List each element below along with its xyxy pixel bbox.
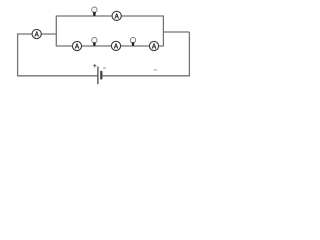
stray minus mark bbox=[154, 69, 157, 71]
battery B1 long plate (+) bbox=[97, 67, 99, 85]
lamp L2 (middle branch left) bbox=[92, 38, 97, 46]
wire left branch horizontal bbox=[18, 33, 57, 35]
wire left inner vertical bbox=[55, 16, 57, 47]
lamp L3 (middle branch right) bbox=[130, 37, 135, 45]
wire bottom left bbox=[17, 75, 97, 77]
wire left vertical bbox=[17, 33, 19, 75]
wire middle branch bbox=[56, 45, 163, 47]
ammeter A4 (middle branch center) bbox=[111, 41, 120, 50]
battery - label bbox=[103, 67, 105, 69]
wire right inner vertical bbox=[162, 16, 164, 47]
ammeter A2 (top branch) bbox=[112, 11, 121, 20]
battery B1 short plate (-) bbox=[100, 71, 102, 80]
ammeter A1 (left branch) bbox=[32, 29, 41, 38]
wire bottom right bbox=[102, 75, 190, 77]
wire right vertical bbox=[188, 32, 190, 76]
wire top branch bbox=[56, 15, 163, 17]
wire top right horizontal bbox=[163, 31, 189, 33]
lamp L1 (top branch) bbox=[92, 7, 97, 16]
ammeter A3 (middle branch left) bbox=[72, 41, 81, 50]
ammeter A5 (middle branch right) bbox=[149, 41, 158, 50]
battery + label bbox=[93, 64, 96, 67]
